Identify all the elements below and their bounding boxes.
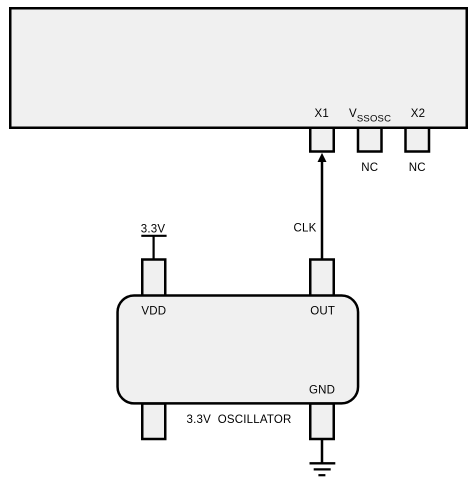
svg-text:CLK: CLK <box>294 222 317 234</box>
pin VDD (oscillator top-left) <box>142 260 165 297</box>
svg-text:X2: X2 <box>411 108 425 120</box>
ground symbol <box>310 463 336 475</box>
pin X1 <box>310 127 334 152</box>
svg-text:NC: NC <box>409 162 426 174</box>
pin GND (oscillator bottom-right) <box>310 404 334 440</box>
arrowhead into X1 <box>318 153 327 162</box>
svg-text:VDD: VDD <box>141 306 166 318</box>
svg-text:GND: GND <box>309 385 335 397</box>
svg-text:NC: NC <box>361 162 378 174</box>
svg-text:X1: X1 <box>315 108 329 120</box>
svg-text:OUT: OUT <box>310 306 335 318</box>
power rail bar 3.3V <box>141 235 166 237</box>
pin OUT (oscillator top-right) <box>310 260 334 297</box>
IC (top chip body) <box>10 8 467 128</box>
svg-text:3.3V: 3.3V <box>141 223 166 235</box>
pin NC (under X2) <box>406 127 430 152</box>
pin NC (under VSSOSC) <box>358 127 382 152</box>
wire 3.3V to VDD pin <box>153 236 155 260</box>
wire GND pin to ground <box>321 439 324 463</box>
svg-text:3.3V OSCILLATOR: 3.3V OSCILLATOR <box>187 414 292 426</box>
oscillator body <box>118 296 358 404</box>
pin bottom-left (oscillator, unlabeled) <box>142 404 165 440</box>
wire CLK (OUT to X1) <box>321 161 324 260</box>
